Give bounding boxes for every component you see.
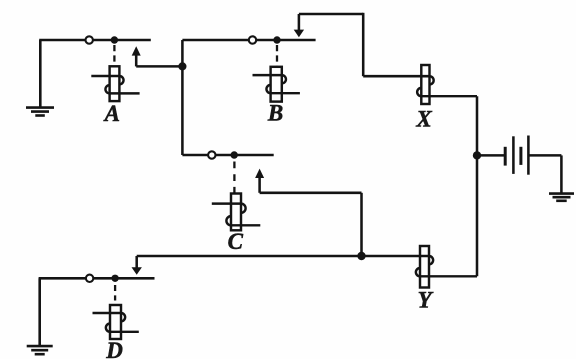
ground G4 right (battery) bbox=[549, 194, 574, 201]
wire: contact-D row bbox=[39, 277, 155, 280]
arrow (down) from bus into contact-D row bbox=[132, 256, 142, 275]
relay coil A bbox=[91, 66, 139, 101]
wire: battery right lead bbox=[528, 155, 561, 193]
relay coil C bbox=[212, 194, 260, 231]
contact B: open circle bbox=[249, 36, 256, 43]
node: junction dot on D row bbox=[111, 275, 118, 282]
arrow (up) from coil-A armature to left bus bbox=[132, 46, 183, 66]
wire: contact-B row bbox=[182, 39, 315, 42]
battery E bbox=[505, 136, 528, 175]
relay coil D bbox=[93, 305, 139, 339]
node: junction dot on bottom bus bbox=[357, 252, 365, 260]
contact D: open circle bbox=[86, 275, 93, 282]
node: junction dot on A row bbox=[111, 36, 118, 43]
mechanical link (dashed) contact C to coil C bbox=[233, 162, 235, 194]
wire: left vertical bus bbox=[181, 40, 184, 155]
wire: bottom bus bbox=[137, 255, 429, 258]
arrow (down) into contact-B row from top wire bbox=[294, 14, 304, 37]
node: junction dot arrow-A / left bus bbox=[178, 62, 186, 70]
ground G2 bottom-left bbox=[27, 278, 53, 354]
relay coil Y bbox=[416, 246, 477, 288]
wire: arrow-C link to bottom bus bbox=[260, 193, 362, 256]
mechanical link (dashed) contact A to coil A bbox=[113, 45, 115, 66]
svg-text:D: D bbox=[105, 338, 123, 359]
svg-text:X: X bbox=[415, 107, 432, 132]
wire: contact-C row bbox=[182, 154, 273, 157]
relay coil X bbox=[417, 65, 477, 104]
contact C: open circle bbox=[208, 151, 215, 158]
svg-text:B: B bbox=[267, 100, 283, 125]
node: junction dot battery bbox=[473, 151, 481, 159]
wire: battery left lead bbox=[477, 154, 505, 157]
wire: top link B to coil X bbox=[299, 13, 430, 76]
wire: right vertical rail bbox=[476, 96, 479, 276]
mechanical link (dashed) contact B to coil B bbox=[276, 45, 278, 66]
contact A: open circle bbox=[86, 36, 93, 43]
ground G1 top-left bbox=[26, 40, 54, 116]
node: junction dot on B row bbox=[273, 36, 280, 43]
wire: contact-A row bbox=[39, 39, 151, 42]
svg-text:Y: Y bbox=[418, 287, 434, 312]
svg-text:A: A bbox=[103, 101, 120, 126]
node: junction dot on C row bbox=[231, 151, 238, 158]
mechanical link (dashed) contact D to coil D bbox=[114, 285, 116, 301]
relay coil B bbox=[253, 67, 300, 102]
arrow (up) from coil-C armature to bus junction bbox=[255, 169, 264, 193]
svg-text:C: C bbox=[228, 229, 244, 254]
